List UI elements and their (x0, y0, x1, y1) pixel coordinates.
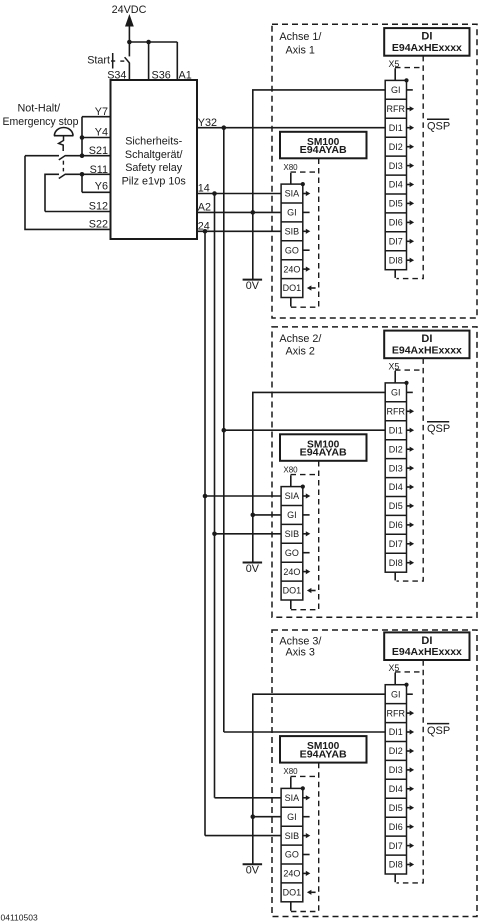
junction Y4 (80, 135, 85, 140)
svg-text:Pilz e1vp 10s: Pilz e1vp 10s (122, 175, 187, 187)
arrow 24O X80 axis 3 (303, 872, 306, 874)
arrow SIB X80 axis 1 (303, 230, 306, 232)
svg-text:DI5: DI5 (389, 199, 403, 209)
arrow DI2 X5 axis 3 (407, 750, 410, 752)
svg-text:SIB: SIB (285, 529, 300, 539)
wire S22 loop (25, 156, 111, 230)
svg-text:DI4: DI4 (389, 784, 403, 794)
arrow RFR X5 axis 2 (407, 410, 410, 412)
svg-text:DI2: DI2 (389, 444, 403, 454)
arrow SIB X80 axis 2 (303, 533, 306, 535)
svg-text:24O: 24O (283, 567, 300, 577)
arrow DI3 X5 axis 2 (407, 467, 410, 469)
safety module SM100 E94AYAB axis 3 (280, 736, 367, 763)
svg-text:24O: 24O (283, 264, 300, 274)
svg-text:DI7: DI7 (389, 237, 403, 247)
svg-text:QSP: QSP (427, 423, 450, 435)
connector X5 bottom stub axis 2 (394, 572, 396, 580)
junction GI axis2 ground line (251, 513, 256, 518)
arrow SIA X80 axis 1 (303, 193, 306, 195)
wire 24VDC down (128, 26, 130, 57)
svg-text:Achse 1/: Achse 1/ (279, 31, 321, 43)
wire S34 to relay (128, 63, 130, 80)
svg-text:DI2: DI2 (389, 142, 403, 152)
pin GI X80 stub axis 3 (303, 816, 310, 818)
arrow DI3 X5 axis 3 (407, 769, 410, 771)
svg-text:X80: X80 (283, 767, 298, 776)
contact 1 blade (59, 155, 66, 160)
arrow DI8 X5 axis 3 (407, 864, 410, 866)
svg-text:DI8: DI8 (389, 255, 403, 265)
arrow DI7 X5 axis 1 (407, 240, 410, 242)
svg-text:GI: GI (391, 388, 401, 398)
wire SIA axis3 from 14 bus (215, 797, 282, 799)
arrow RFR X5 axis 3 (407, 712, 410, 714)
svg-text:Axis 1: Axis 1 (286, 45, 315, 57)
wire GI X5 axis1 from ground line (253, 90, 385, 280)
connector X80 top stub axis 1 (290, 173, 292, 184)
connector X5 cable dashes axis 2 (395, 369, 423, 371)
connector X5 top stub axis 2 (394, 371, 396, 383)
arrow SIA X80 axis 2 (303, 495, 306, 497)
arrow DI8 X5 axis 2 (407, 562, 410, 564)
signal label QSP axis 1 (427, 118, 449, 120)
junction S11 (80, 172, 85, 177)
junction X5 strip corner axis 3 (404, 683, 408, 687)
arrow 24O X80 axis 1 (303, 268, 306, 270)
pin GO X80 stub axis 2 (303, 552, 310, 554)
emergency stop link between contacts (62, 161, 64, 165)
junction X5 strip corner axis 1 (404, 78, 408, 82)
terminal strip X5 axis 3 (385, 685, 406, 874)
contact 2 blade (59, 174, 66, 179)
connector X80 top stub axis 3 (290, 777, 292, 788)
svg-text:24O: 24O (283, 869, 300, 879)
start switch S34 actuator tick (111, 60, 115, 62)
arrow DI8 X5 axis 1 (407, 259, 410, 261)
svg-text:04110503: 04110503 (1, 913, 38, 923)
safety module SM100 E94AYAB axis 1 (280, 132, 367, 159)
arrow DO1 X80 axis 2 (311, 590, 315, 592)
wire GI X5 axis2 and ground line (253, 392, 385, 562)
svg-text:DI4: DI4 (389, 180, 403, 190)
arrow DI3 X5 axis 1 (407, 165, 410, 167)
svg-text:QSP: QSP (427, 725, 450, 737)
svg-text:DI1: DI1 (389, 727, 403, 737)
svg-text:E94AYAB: E94AYAB (300, 750, 347, 761)
svg-text:GI: GI (287, 208, 297, 218)
svg-text:X80: X80 (283, 465, 298, 474)
svg-text:24VDC: 24VDC (112, 4, 147, 16)
svg-text:DO1: DO1 (283, 888, 302, 898)
svg-text:DO1: DO1 (283, 586, 302, 596)
arrow DI4 X5 axis 3 (407, 788, 410, 790)
svg-text:DI8: DI8 (389, 558, 403, 568)
wire S12 (45, 211, 111, 213)
svg-text:QSP: QSP (427, 121, 450, 133)
svg-text:0V: 0V (246, 280, 260, 292)
svg-text:Schaltgerät/: Schaltgerät/ (125, 149, 183, 161)
svg-text:DO1: DO1 (283, 283, 302, 293)
wire left to contact 1 (25, 155, 59, 157)
signal label QSP axis 3 (427, 723, 449, 725)
svg-text:GO: GO (285, 850, 299, 860)
arrow DI2 X5 axis 2 (407, 448, 410, 450)
svg-text:0V: 0V (246, 563, 260, 575)
wire Y4 stub (82, 137, 111, 139)
svg-text:X80: X80 (283, 163, 298, 172)
svg-text:SIB: SIB (285, 831, 300, 841)
svg-text:E94AYAB: E94AYAB (300, 145, 347, 156)
svg-text:SIB: SIB (285, 227, 300, 237)
svg-text:RFR: RFR (387, 407, 406, 417)
svg-text:DI6: DI6 (389, 218, 403, 228)
svg-text:Axis 2: Axis 2 (286, 345, 315, 357)
ground 0V axis 3 (243, 863, 263, 865)
svg-text:SIA: SIA (285, 491, 300, 501)
wire Y7-S21 vertical (81, 117, 83, 156)
arrow DI5 X5 axis 1 (407, 202, 410, 204)
arrow SIA X80 axis 3 (303, 797, 306, 799)
start switch S34 actuator bar (112, 53, 114, 69)
wire contact1 to S21 (65, 155, 110, 157)
wire 14 to SIA axis1 (197, 193, 281, 195)
connector X80 bottom stub axis 1 (290, 298, 292, 307)
wire S11-Y6 vertical (81, 174, 83, 192)
wire 24 to SIB axis1 (197, 230, 281, 232)
connector X5 top stub axis 3 (394, 673, 396, 685)
junction Y32 bus (222, 125, 227, 130)
wire DI1 axis2 from Y32 bus (224, 429, 385, 431)
arrow RFR X5 axis 1 (407, 108, 410, 110)
svg-text:GI: GI (287, 510, 297, 520)
arrow DI7 X5 axis 2 (407, 543, 410, 545)
svg-text:DI3: DI3 (389, 161, 403, 171)
pin GI X5 stub axis 1 (407, 89, 413, 91)
wire 24VDC rail (129, 41, 177, 43)
terminal strip X80 axis 3 (281, 788, 303, 901)
safety module SM100 E94AYAB axis 2 (280, 434, 367, 461)
pin GO X80 stub axis 1 (303, 249, 310, 251)
svg-text:GI: GI (287, 812, 297, 822)
wire SIB axis3 from 24 bus (205, 835, 281, 837)
svg-text:Safety relay: Safety relay (125, 162, 183, 174)
bus 24 vertical (204, 231, 206, 835)
svg-text:GO: GO (285, 245, 299, 255)
svg-text:DI7: DI7 (389, 539, 403, 549)
wire S36 to relay (148, 42, 150, 80)
svg-text:DI6: DI6 (389, 822, 403, 832)
connector X5 cable dashes axis 3 (395, 671, 423, 673)
svg-text:DI7: DI7 (389, 841, 403, 851)
svg-text:E94AxHExxxx: E94AxHExxxx (392, 43, 462, 54)
svg-text:DI5: DI5 (389, 803, 403, 813)
svg-text:0V: 0V (246, 865, 260, 877)
svg-text:DI8: DI8 (389, 860, 403, 870)
arrow DI4 X5 axis 1 (407, 184, 410, 186)
svg-text:DI6: DI6 (389, 520, 403, 530)
arrow DI4 X5 axis 2 (407, 486, 410, 488)
svg-text:Sicherheits-: Sicherheits- (125, 136, 182, 148)
svg-text:Axis 3: Axis 3 (286, 646, 315, 658)
wire SIB axis2 from 14 bus (215, 533, 282, 535)
svg-text:E94AYAB: E94AYAB (300, 448, 347, 459)
connector X5 cable dashes axis 1 (395, 67, 423, 69)
axis 1 dashed enclosure (272, 24, 477, 318)
inverter DI E94AxHExxxx axis 3 (384, 632, 469, 660)
arrow DI1 X5 axis 2 (407, 429, 410, 431)
pin GI X80 stub axis 2 (303, 514, 310, 516)
junction DI1 axis2 (222, 428, 227, 433)
svg-text:DI2: DI2 (389, 746, 403, 756)
connector X80 bottom stub axis 2 (290, 600, 292, 609)
terminal strip X5 axis 2 (385, 383, 406, 572)
arrow DI2 X5 axis 1 (407, 146, 410, 148)
svg-text:Y6: Y6 (95, 181, 108, 193)
connector X80 cable dashes axis 1 (291, 171, 319, 173)
supply arrow 24VDC (125, 14, 134, 27)
start switch S34 blade (125, 57, 130, 63)
arrow DI5 X5 axis 3 (407, 807, 410, 809)
pin GI X80 stub axis 1 (303, 211, 310, 213)
wire GI X80 axis3 (253, 816, 281, 818)
inverter DI E94AxHExxxx axis 1 (384, 28, 469, 56)
terminal strip X5 axis 1 (385, 80, 406, 269)
arrow DI1 X5 axis 3 (407, 731, 410, 733)
bus 14 vertical (214, 194, 216, 798)
svg-text:DI3: DI3 (389, 765, 403, 775)
emergency stop plunger zigzag (59, 136, 64, 151)
axis 2 dashed enclosure (272, 327, 477, 617)
svg-text:GI: GI (391, 85, 401, 95)
arrow DO1 X80 axis 1 (311, 287, 315, 289)
bus Y32 vertical (223, 128, 225, 732)
svg-text:E94AxHExxxx: E94AxHExxxx (392, 345, 462, 356)
connector X5 top stub axis 1 (394, 68, 396, 80)
svg-text:DI: DI (421, 635, 432, 647)
svg-text:DI4: DI4 (389, 482, 403, 492)
svg-text:RFR: RFR (387, 104, 406, 114)
pin GO X80 stub axis 3 (303, 854, 310, 856)
svg-text:Start: Start (87, 54, 110, 66)
connector X5 bottom stub axis 1 (394, 270, 396, 278)
svg-text:Not-Halt/: Not-Halt/ (18, 103, 61, 115)
svg-text:DI3: DI3 (389, 463, 403, 473)
svg-text:SIA: SIA (285, 793, 300, 803)
wire contact2 left feed (45, 174, 59, 211)
svg-text:DI: DI (421, 333, 432, 345)
axis 3 dashed enclosure (272, 630, 477, 917)
wire GI X80 axis2 (253, 514, 281, 516)
svg-text:Emergency stop: Emergency stop (3, 116, 79, 128)
connector X80 cable dashes axis 3 (291, 775, 319, 777)
connector X80 bottom stub axis 3 (290, 902, 292, 911)
junction X80 strip corner axis 2 (301, 485, 305, 489)
arrow 24O X80 axis 2 (303, 571, 306, 573)
inverter DI E94AxHExxxx axis 2 (384, 331, 469, 359)
svg-text:Achse 2/: Achse 2/ (279, 333, 321, 345)
arrow DI1 X5 axis 1 (407, 127, 410, 129)
junction X5 strip corner axis 2 (404, 381, 408, 385)
svg-text:DI1: DI1 (389, 123, 403, 133)
ground 0V axis 1 (243, 279, 263, 281)
arrow DI5 X5 axis 2 (407, 505, 410, 507)
arrow DI6 X5 axis 3 (407, 826, 410, 828)
terminal strip X80 axis 2 (281, 487, 303, 600)
wire Y7 stub (82, 116, 111, 118)
junction GI axis3 ground line (251, 814, 256, 819)
signal label QSP axis 2 (427, 421, 449, 423)
connector X80 cable dashes axis 2 (291, 474, 319, 476)
arrow DI7 X5 axis 3 (407, 845, 410, 847)
svg-text:RFR: RFR (387, 708, 406, 718)
emergency stop button S0 head (54, 128, 73, 136)
junction S21 (80, 153, 85, 158)
wire DI1 axis3 from Y32 bus (224, 731, 385, 733)
svg-text:DI5: DI5 (389, 501, 403, 511)
junction 14 bus (212, 191, 217, 196)
wire SIA axis2 from 24 bus (205, 495, 281, 497)
connector X80 top stub axis 2 (290, 475, 292, 486)
wire Y32 to DI1 axis1 (197, 127, 385, 129)
wire A2 to GI axis1 (197, 211, 281, 213)
wire Y6 stub (82, 191, 111, 193)
arrow DO1 X80 axis 3 (311, 891, 315, 893)
junction 24VDC/S34 (127, 40, 132, 45)
svg-text:GO: GO (285, 548, 299, 558)
wire GI X5 axis3 and ground line (253, 694, 385, 864)
arrow SIB X80 axis 3 (303, 835, 306, 837)
pin GI X5 stub axis 3 (407, 693, 413, 695)
svg-text:SIA: SIA (285, 189, 300, 199)
connector X5 bottom stub axis 3 (394, 874, 396, 882)
svg-text:DI: DI (421, 31, 432, 43)
wire A1 to relay (176, 42, 178, 80)
terminal strip X80 axis 1 (281, 184, 303, 297)
junction X80 strip corner axis 1 (301, 182, 305, 186)
svg-text:DI1: DI1 (389, 425, 403, 435)
junction SIB axis2 (212, 532, 217, 537)
junction S36 branch (146, 40, 151, 45)
ground 0V axis 2 (243, 562, 263, 564)
wire contact2 to S11 (65, 173, 110, 175)
junction SIA axis2 (203, 494, 208, 499)
safety relay K1 Pilz e1vp 10s (111, 80, 198, 239)
junction A2 ground line axis1 (251, 210, 256, 215)
start switch S34 link (120, 60, 124, 62)
pin GI X5 stub axis 2 (407, 391, 413, 393)
svg-text:GI: GI (391, 689, 401, 699)
junction 24 bus (203, 229, 208, 234)
arrow DI6 X5 axis 2 (407, 524, 410, 526)
svg-text:E94AxHExxxx: E94AxHExxxx (392, 647, 462, 658)
arrow DI6 X5 axis 1 (407, 221, 410, 223)
junction X80 strip corner axis 3 (301, 786, 305, 790)
